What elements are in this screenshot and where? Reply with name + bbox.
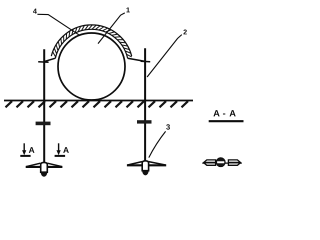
label 3 (166, 124, 170, 129)
label 4 (33, 9, 37, 14)
label 2 (183, 30, 186, 35)
leader 3 (149, 131, 166, 157)
strap hatch ticks (53, 25, 132, 57)
left anchor right wing (47, 163, 61, 166)
left anchor tip (41, 172, 48, 176)
label 1 (126, 7, 129, 12)
section view right blade (228, 160, 240, 165)
left collar (36, 122, 51, 126)
section view pipe bottom wall (217, 163, 225, 166)
section title A - A (213, 110, 235, 116)
section view right blade stripe (229, 162, 241, 164)
section view pipe top wall (217, 158, 225, 161)
pipe circle (58, 33, 125, 100)
left post (43, 49, 45, 163)
section view left blade (204, 160, 216, 165)
ground hatching (6, 101, 189, 107)
section arrow A right bar (55, 155, 66, 157)
right anchor sleeve (142, 161, 148, 171)
section arrow A left bar (20, 155, 30, 157)
left post clamp tick (38, 61, 48, 63)
section arrow A right shaft (58, 143, 60, 151)
right post (144, 48, 146, 162)
section arrow A left head (22, 150, 26, 155)
ground line (4, 100, 193, 102)
right anchor baseline (127, 164, 166, 166)
right anchor right wing (149, 162, 166, 165)
leader 2 (147, 35, 182, 77)
section arrow A right label (63, 147, 69, 153)
right anchor left wing (128, 162, 142, 165)
right anchor tip (142, 171, 149, 176)
leader 4 (37, 14, 79, 35)
right collar (137, 120, 152, 123)
left anchor sleeve (41, 162, 48, 172)
section arrow A left label (29, 147, 35, 153)
section arrow A right head (57, 150, 61, 155)
strap left connector (44, 58, 55, 61)
section view pipe circle (216, 158, 225, 167)
section arrow A left shaft (23, 143, 25, 151)
left anchor baseline (26, 166, 63, 168)
leader 1 (98, 13, 125, 44)
strap right connector (128, 58, 146, 61)
section title underline (209, 120, 244, 122)
strap inner arc (55, 29, 127, 58)
right post clamp tick (141, 60, 151, 63)
strap outer arc (51, 25, 131, 56)
left anchor left wing (26, 163, 40, 166)
section view axis line (202, 162, 242, 164)
section view left blade stripe (204, 162, 216, 164)
